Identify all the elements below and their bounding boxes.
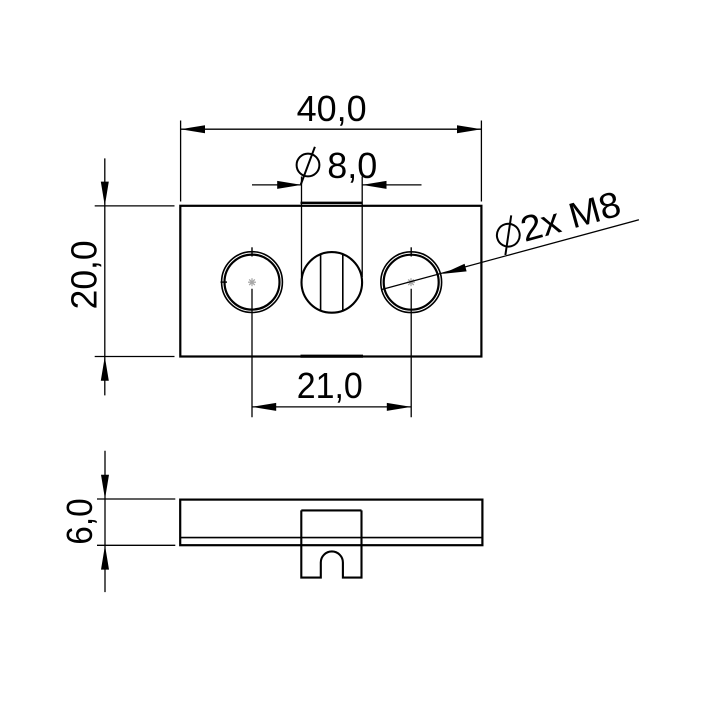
dimension 40,0 text bbox=[297, 88, 367, 129]
center tick marks on circles bbox=[221, 247, 412, 282]
slot edge top (thick segment) bbox=[301, 202, 363, 204]
hole left M8 (thread outer circle) bbox=[222, 252, 283, 313]
dimension diameter 8,0 extension lines bbox=[302, 177, 363, 278]
dimension 6,0 extension lines bbox=[97, 499, 175, 545]
dimension 40,0 extension line left bbox=[180, 121, 182, 202]
dimension 6,0 text (rotated) bbox=[59, 498, 100, 545]
dimension 20,0 line with outside arrows bbox=[101, 158, 109, 395]
dimension 40,0 extension line right bbox=[480, 121, 482, 202]
dimension 40,0 line with arrows bbox=[181, 125, 482, 133]
center mark asterisk right hole bbox=[407, 278, 415, 286]
dimension 20,0 extension lines bbox=[95, 206, 175, 357]
dimension 20,0 text (rotated) bbox=[63, 240, 104, 309]
dimension 8,0 text bbox=[327, 145, 377, 186]
dimension 6,0 line with outside arrows bbox=[101, 451, 109, 592]
side view plate outline bbox=[180, 500, 482, 546]
svg-text:8,0: 8,0 bbox=[327, 145, 377, 186]
dimension diameter 8,0 symbol bbox=[297, 147, 320, 185]
svg-text:40,0: 40,0 bbox=[297, 88, 367, 129]
side view inner line bbox=[180, 537, 482, 539]
dimension 21,0 line with arrows bbox=[252, 403, 411, 411]
hole middle diameter 8 with slot chords bbox=[302, 252, 363, 313]
side view tab with notch bbox=[301, 510, 361, 577]
plate outline (top view) bbox=[180, 206, 481, 357]
extension line from left hole center down bbox=[251, 289, 253, 417]
svg-text:20,0: 20,0 bbox=[63, 240, 104, 309]
center mark asterisk left hole bbox=[248, 278, 256, 286]
slot edge bottom (thick segment) bbox=[301, 355, 364, 358]
extension line from right hole center down bbox=[410, 289, 412, 417]
svg-text:6,0: 6,0 bbox=[59, 498, 100, 545]
label 2x M8 text with diameter symbol bbox=[491, 183, 625, 257]
dimension 21,0 text bbox=[297, 365, 363, 406]
dimension diameter 8,0 line with outside arrows bbox=[252, 181, 422, 189]
leader line 2x M8 bbox=[381, 220, 639, 290]
hole right M8 (thread outer circle) bbox=[381, 252, 442, 313]
svg-text:21,0: 21,0 bbox=[297, 365, 363, 406]
